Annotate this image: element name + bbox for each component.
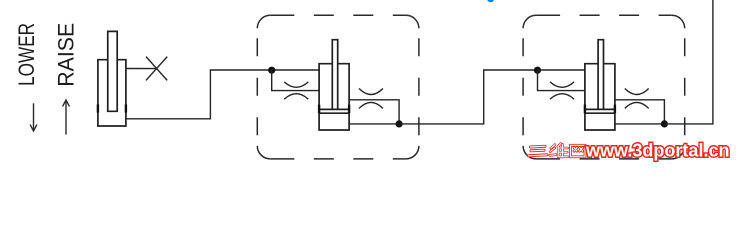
coupling K2 lower arc: [359, 102, 383, 108]
cylinder C2 body: [585, 64, 615, 130]
cylinder C2 wall tick left: [584, 105, 586, 114]
watermark Chinese char WEI: [550, 144, 568, 157]
cylinder C2 wall tick right: [614, 105, 616, 114]
plugged port X: [146, 57, 167, 81]
dashed enclosure box 1: [257, 15, 419, 159]
cylinder C1 rod: [332, 40, 337, 110]
dashed enclosure box 2: [523, 15, 685, 159]
coupling K4 lower arc: [625, 102, 649, 108]
wire J1 drop: [272, 70, 319, 90]
svg-text:LOWER: LOWER: [14, 23, 39, 86]
node J2: [396, 120, 403, 127]
svg-text:www.3dportal.cn: www.3dportal.cn: [585, 139, 729, 160]
coupling K1 upper arc: [284, 82, 308, 87]
cylinder C2 rod: [598, 40, 603, 110]
watermark Chinese char WANG: [571, 145, 586, 157]
arrow down (LOWER): [30, 103, 37, 131]
wire C1 bottom: [349, 123, 399, 125]
node J3: [534, 67, 541, 74]
coupling K2 upper arc: [359, 89, 383, 95]
control valve V1 body: [98, 60, 126, 126]
watermark Chinese char SAN: [529, 146, 548, 156]
arrow up (RAISE): [63, 100, 70, 135]
wire C2 right to J4: [615, 100, 665, 124]
wire J3 to C2: [538, 69, 585, 71]
wire J3 drop: [538, 70, 585, 90]
valve wall tick right: [125, 104, 127, 112]
wire C2 bottom: [615, 123, 665, 125]
coupling K1 lower arc: [284, 94, 308, 100]
wire valve to plug: [126, 68, 157, 70]
coupling K4 upper arc: [625, 89, 649, 95]
cylinder C1 body: [319, 64, 349, 130]
cylinder C1 wall tick left: [318, 105, 320, 114]
node J4: [661, 120, 668, 127]
coupling K3 upper arc: [550, 82, 574, 87]
cylinder C1 wall tick right: [348, 105, 350, 114]
wire C1 right to J2: [349, 100, 399, 124]
wire box1 to box2: [399, 70, 537, 124]
svg-text:RAISE: RAISE: [54, 23, 79, 87]
valve wall tick left: [97, 104, 99, 112]
control valve V1 rod: [108, 31, 117, 111]
blue marker dot: [487, 0, 494, 2]
wire valve bottom run: [126, 70, 319, 119]
wire out to top edge: [664, 0, 713, 124]
coupling K3 lower arc: [550, 94, 574, 100]
node J1: [268, 67, 275, 74]
